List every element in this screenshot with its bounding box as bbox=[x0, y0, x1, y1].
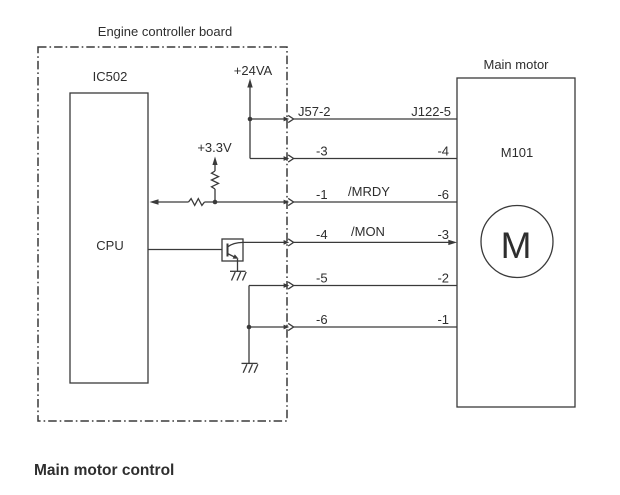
svg-text:IC502: IC502 bbox=[93, 69, 128, 84]
wire CPU to transistor base bbox=[148, 249, 222, 251]
pin label -1 bbox=[437, 312, 449, 327]
svg-text:/MON: /MON bbox=[351, 224, 385, 239]
+24VA supply arrow bbox=[247, 79, 252, 120]
pin label -4 bbox=[316, 227, 328, 242]
svg-text:-3: -3 bbox=[316, 144, 328, 159]
label: Engine controller board bbox=[98, 24, 232, 39]
resistor series (horizontal) on /MRDY bbox=[189, 199, 205, 206]
transistor Q (digital transistor in box) bbox=[222, 239, 243, 261]
net +3.3V label bbox=[197, 140, 232, 155]
wire row2 right segment bbox=[294, 158, 457, 160]
svg-text:M101: M101 bbox=[501, 145, 534, 160]
arrow into CPU (/MRDY) bbox=[150, 199, 189, 204]
svg-text:J57-2: J57-2 bbox=[298, 104, 331, 119]
label: IC502 bbox=[93, 69, 128, 84]
svg-text:-3: -3 bbox=[437, 227, 449, 242]
ground (transistor emitter) bbox=[230, 271, 246, 280]
connector pin row6 arrow bbox=[284, 325, 290, 330]
svg-text:-4: -4 bbox=[316, 227, 328, 242]
wire ground vertical (row5 to row6) bbox=[248, 286, 250, 328]
wire resistor to row3 bbox=[214, 189, 216, 202]
connector socket chevron row1 bbox=[288, 115, 293, 122]
pin label -6 bbox=[437, 187, 449, 202]
engine controller board boundary (dash-dot box) bbox=[38, 47, 287, 421]
junction node +24VA / row1 bbox=[248, 117, 253, 122]
pin label -2 bbox=[437, 271, 449, 286]
connector pin J57-2 arrow bbox=[284, 117, 290, 122]
wire junction to ground symbol bbox=[248, 327, 250, 363]
label: M (motor) bbox=[501, 225, 532, 266]
svg-text:CPU: CPU bbox=[96, 238, 123, 253]
wire row4 collector segment bbox=[243, 241, 284, 243]
net +24VA label bbox=[234, 63, 273, 78]
pin label -3 bbox=[316, 144, 328, 159]
signal label /MON bbox=[351, 224, 385, 239]
svg-text:-6: -6 bbox=[437, 187, 449, 202]
svg-text:-5: -5 bbox=[316, 271, 328, 286]
ground (rows 5-6 return) bbox=[242, 363, 258, 372]
wire row5 right segment bbox=[294, 285, 457, 287]
svg-text:-6: -6 bbox=[316, 312, 328, 327]
resistor pull-up (vertical) bbox=[212, 171, 219, 189]
connector socket chevron row5 bbox=[288, 282, 293, 289]
connector socket chevron row2 bbox=[288, 155, 293, 162]
caption: Main motor control bbox=[34, 462, 174, 479]
connector socket chevron row4 bbox=[288, 239, 293, 246]
CPU U IC502 box bbox=[70, 93, 148, 383]
+3.3V supply arrow bbox=[212, 157, 217, 172]
wire row1 left segment bbox=[250, 118, 284, 120]
connector pin row5 arrow bbox=[284, 283, 290, 288]
pin label -6 bbox=[316, 312, 328, 327]
connector pin row4 arrow bbox=[284, 240, 290, 245]
wire transistor emitter to ground bbox=[237, 259, 239, 272]
signal label /MRDY bbox=[348, 184, 390, 199]
svg-text:+3.3V: +3.3V bbox=[197, 140, 232, 155]
wire row3 mid segment bbox=[205, 201, 285, 203]
junction node row3 / pull-up bbox=[213, 200, 218, 205]
svg-text:-1: -1 bbox=[437, 312, 449, 327]
label: CPU bbox=[96, 238, 123, 253]
svg-text:-4: -4 bbox=[437, 144, 449, 159]
wire row5 left segment bbox=[249, 285, 284, 287]
junction node row6 / ground bbox=[247, 325, 252, 330]
connector socket chevron row6 bbox=[288, 323, 293, 330]
pin label J57-2 bbox=[298, 104, 331, 119]
svg-text:Engine controller board: Engine controller board bbox=[98, 24, 232, 39]
svg-text:-1: -1 bbox=[316, 187, 328, 202]
wire +24VA vertical feed bbox=[249, 119, 251, 159]
connector pin row3 arrow bbox=[284, 200, 290, 205]
svg-text:M: M bbox=[501, 225, 532, 266]
svg-text:-2: -2 bbox=[437, 271, 449, 286]
main motor box bbox=[457, 78, 575, 407]
motor M101 circle symbol bbox=[481, 206, 553, 278]
wire row2 left segment bbox=[250, 158, 284, 160]
pin label J122-5 bbox=[411, 104, 451, 119]
wire row1 right segment bbox=[294, 118, 457, 120]
label: M101 bbox=[501, 145, 534, 160]
wire row4 right segment with arrow into motor bbox=[294, 240, 457, 245]
wire row3 right segment bbox=[294, 201, 457, 203]
svg-text:J122-5: J122-5 bbox=[411, 104, 451, 119]
wire row6 left segment bbox=[249, 326, 284, 328]
connector pin row2 arrow bbox=[284, 156, 290, 161]
svg-text:+24VA: +24VA bbox=[234, 63, 273, 78]
label: Main motor bbox=[483, 57, 549, 72]
pin label -4 bbox=[437, 144, 449, 159]
svg-text:/MRDY: /MRDY bbox=[348, 184, 390, 199]
svg-text:Main motor control: Main motor control bbox=[34, 462, 174, 479]
pin label -3 bbox=[437, 227, 449, 242]
svg-text:Main motor: Main motor bbox=[483, 57, 549, 72]
wire row6 right segment bbox=[294, 326, 457, 328]
pin label -5 bbox=[316, 271, 328, 286]
connector socket chevron row3 bbox=[288, 198, 293, 205]
pin label -1 bbox=[316, 187, 328, 202]
